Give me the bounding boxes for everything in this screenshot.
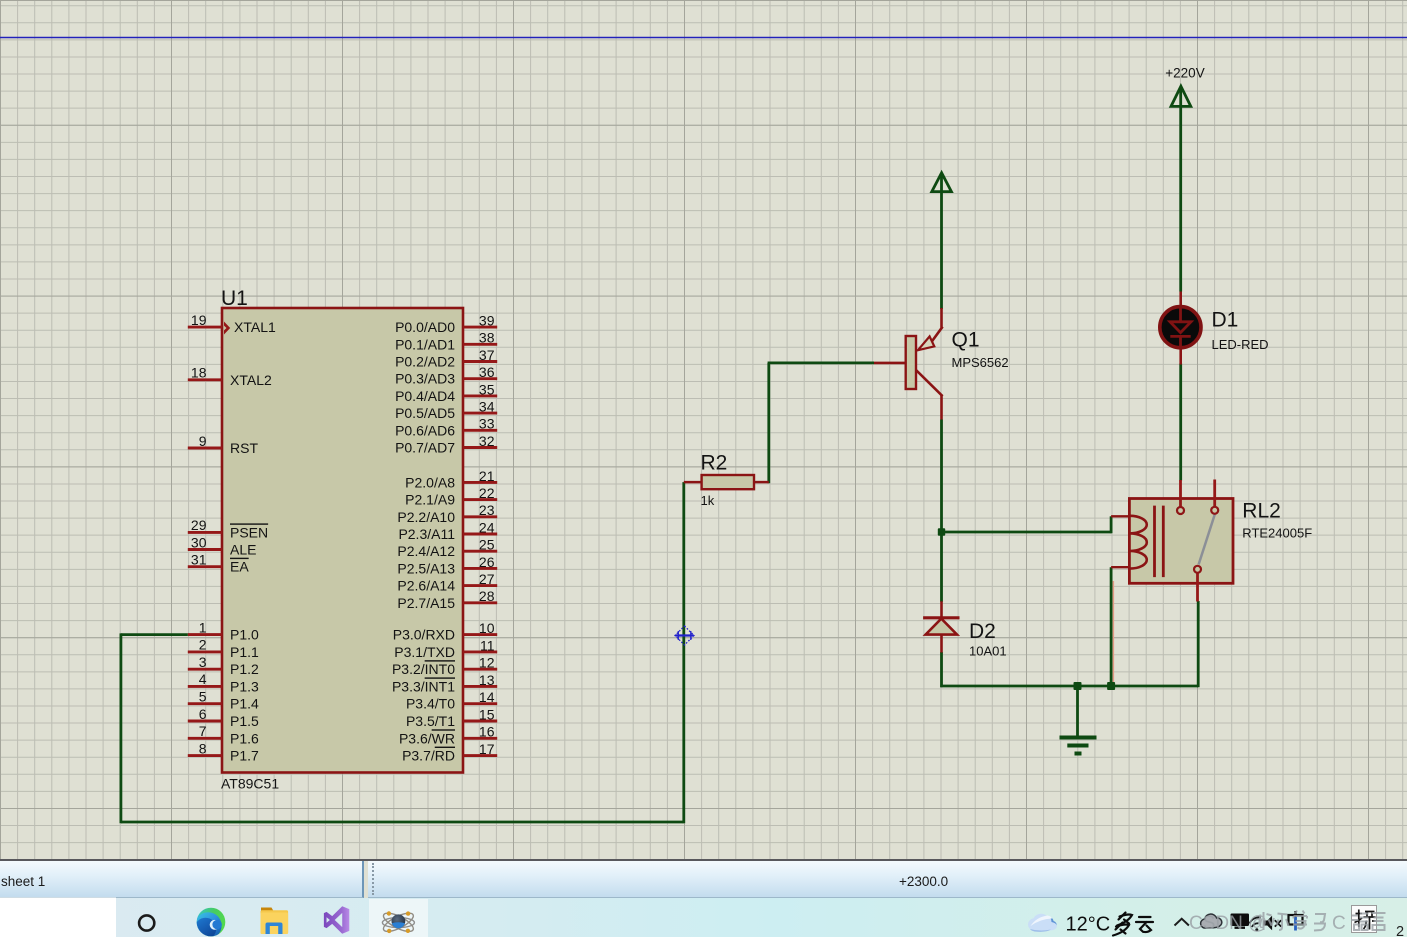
wire P1.0 to left vertical — [121, 633, 188, 636]
wire relay coil bottom lead down to rail — [1110, 567, 1113, 687]
pin 38 P0.1/AD1 wire — [463, 343, 497, 346]
wire bottom rail to relay common — [940, 685, 1198, 688]
tray chevron ^ — [1175, 919, 1189, 926]
Q1 emitter diagonal — [932, 327, 943, 342]
wire left vertical down — [120, 633, 123, 823]
microcontroller U1 AT89C51 body — [222, 308, 463, 773]
transistor Q1 body bar — [906, 336, 916, 389]
svg-text:CSDN @: CSDN @ — [1189, 913, 1267, 934]
origin marker (blue) — [675, 626, 694, 645]
open window (white) at left of taskbar — [0, 898, 116, 937]
pin 14 P3.4/T0 wire — [463, 702, 497, 705]
relay RL2 body — [1129, 499, 1233, 584]
sheet border line (blue) — [0, 37, 1407, 39]
junction dot coil return on rail — [1107, 682, 1115, 690]
relay coil arcs — [1130, 516, 1147, 569]
pin 7 P1.6 wire — [188, 737, 222, 740]
pin 29 PSEN wire — [188, 531, 222, 534]
wire Q1 collector down to junction — [940, 420, 943, 602]
wire relay coil top lead down — [1110, 516, 1113, 533]
pin 4 P1.3 wire — [188, 685, 222, 688]
pin 19 XTAL1 wire — [188, 326, 222, 329]
Proteus atom icon — [381, 910, 416, 935]
ground symbol — [1060, 738, 1097, 754]
pin 39 P0.0/AD0 wire — [463, 326, 497, 329]
pin 9 RST wire — [188, 447, 222, 450]
wire R2 right up — [767, 363, 770, 483]
pin 3 P1.2 wire — [188, 668, 222, 671]
windows taskbar — [0, 898, 1407, 937]
pin 12 P3.2/INT0 wire — [463, 668, 497, 671]
pin 18 XTAL2 wire — [188, 378, 222, 381]
relay coil bottom lead — [1111, 566, 1130, 568]
wire ground stem — [1076, 686, 1079, 737]
tray display icon — [1231, 914, 1250, 929]
pin 30 ALE wire — [188, 548, 222, 551]
power arrow +220V — [1171, 86, 1191, 109]
wire D2 anode down to bottom rail — [940, 652, 943, 687]
pin 35 P0.4/AD4 wire — [463, 394, 497, 397]
relay coil top lead — [1111, 515, 1130, 517]
pin 10 P3.0/RXD wire — [463, 633, 497, 636]
svg-text:C: C — [1332, 913, 1346, 934]
wire bottom horizontal under chip — [121, 821, 684, 824]
pin 27 P2.6/A14 wire — [463, 584, 497, 587]
Visual Studio icon — [324, 906, 349, 933]
pin 2 P1.1 wire — [188, 650, 222, 653]
wire relay common down to rail — [1197, 601, 1200, 687]
diode D2 triangle — [926, 619, 957, 635]
wire junction to relay coil — [942, 531, 1112, 534]
LED D1 leads — [1179, 292, 1182, 365]
junction dot ground tap — [1074, 682, 1082, 690]
pin 22 P2.1/A9 wire — [463, 498, 497, 501]
Q1 collector vertical stub — [940, 395, 943, 420]
power arrow above Q1 — [932, 173, 952, 192]
pin 23 P2.2/A10 wire — [463, 515, 497, 518]
weather cloud icon — [1028, 914, 1057, 932]
pin 24 P2.3/A11 wire — [463, 533, 497, 536]
pin 13 P3.3/INT1 wire — [463, 685, 497, 688]
pin 31 EA wire — [188, 565, 222, 568]
pin 36 P0.3/AD3 wire — [463, 377, 497, 380]
diode D2 cathode bar — [923, 616, 959, 619]
relay switch blade — [1199, 514, 1215, 564]
svg-text:12°C: 12°C — [1066, 914, 1111, 936]
wire D1 anode up to +220V arrow — [1179, 109, 1182, 292]
pin 34 P0.5/AD5 wire — [463, 412, 497, 415]
red overlap of coil return wire — [1112, 581, 1114, 684]
Q1 emitter vertical stub — [940, 308, 943, 328]
relay core lines — [1155, 506, 1164, 577]
pin 16 P3.6/WR wire — [463, 737, 497, 740]
pin 15 P3.5/T1 wire — [463, 720, 497, 723]
Q1 collector diagonal — [916, 370, 943, 396]
pin 6 P1.5 wire — [188, 720, 222, 723]
tray IME pin box — [1352, 906, 1377, 933]
resistor R2 body — [702, 475, 754, 489]
diode D2 leads — [940, 601, 943, 652]
pin 26 P2.5/A13 wire — [463, 567, 497, 570]
weather CJK text duo — [1113, 913, 1132, 936]
wire horizontal to Q1 base — [768, 361, 874, 364]
pin 28 P2.7/A15 wire — [463, 601, 497, 604]
pin 17 P3.7/RD wire — [463, 754, 497, 757]
junction dot at Q1 collector node — [938, 528, 945, 535]
weather CJK text yun — [1136, 917, 1153, 932]
Edge browser icon — [195, 907, 226, 937]
pin 1 P1.0 wire — [188, 633, 222, 636]
wire Q1 emitter to power arrow — [940, 192, 943, 309]
pin 11 P3.1/TXD wire — [463, 650, 497, 653]
relay switch contact circles — [1177, 507, 1218, 573]
resistor R2 leads — [684, 481, 769, 484]
relay switch pin leads — [1181, 480, 1215, 602]
LED D1 body — [1160, 307, 1201, 348]
wire vertical up to R2 left — [682, 482, 685, 823]
transistor Q1 leads — [874, 308, 943, 420]
folder (file explorer) icon — [261, 908, 289, 935]
Q1 emitter arrow (PNP) — [918, 336, 934, 350]
tray speaker muted — [1264, 916, 1282, 931]
pin 32 P0.7/AD7 wire — [463, 446, 497, 449]
Proteus app button highlight — [369, 899, 428, 937]
wire D1 cathode down to relay pin — [1179, 364, 1182, 481]
Q1 base lead — [874, 362, 906, 365]
pin 33 P0.6/AD6 wire — [463, 429, 497, 432]
LED D1 inner diode symbol — [1170, 306, 1191, 349]
search circle icon — [139, 915, 154, 930]
pin 21 P2.0/A8 wire — [463, 481, 497, 484]
pin 37 P0.2/AD2 wire — [463, 360, 497, 363]
CSDN watermark — [1189, 911, 1386, 935]
pin 5 P1.4 wire — [188, 702, 222, 705]
pin 8 P1.7 wire — [188, 754, 222, 757]
XTAL1 clock input marker — [224, 322, 230, 335]
tray IME zhong — [1289, 911, 1303, 931]
status bar — [0, 859, 1407, 898]
svg-text:2: 2 — [1396, 924, 1404, 937]
tray OneDrive cloud — [1201, 914, 1222, 928]
pin 25 P2.4/A12 wire — [463, 550, 497, 553]
tray wifi arcs — [1250, 917, 1262, 931]
